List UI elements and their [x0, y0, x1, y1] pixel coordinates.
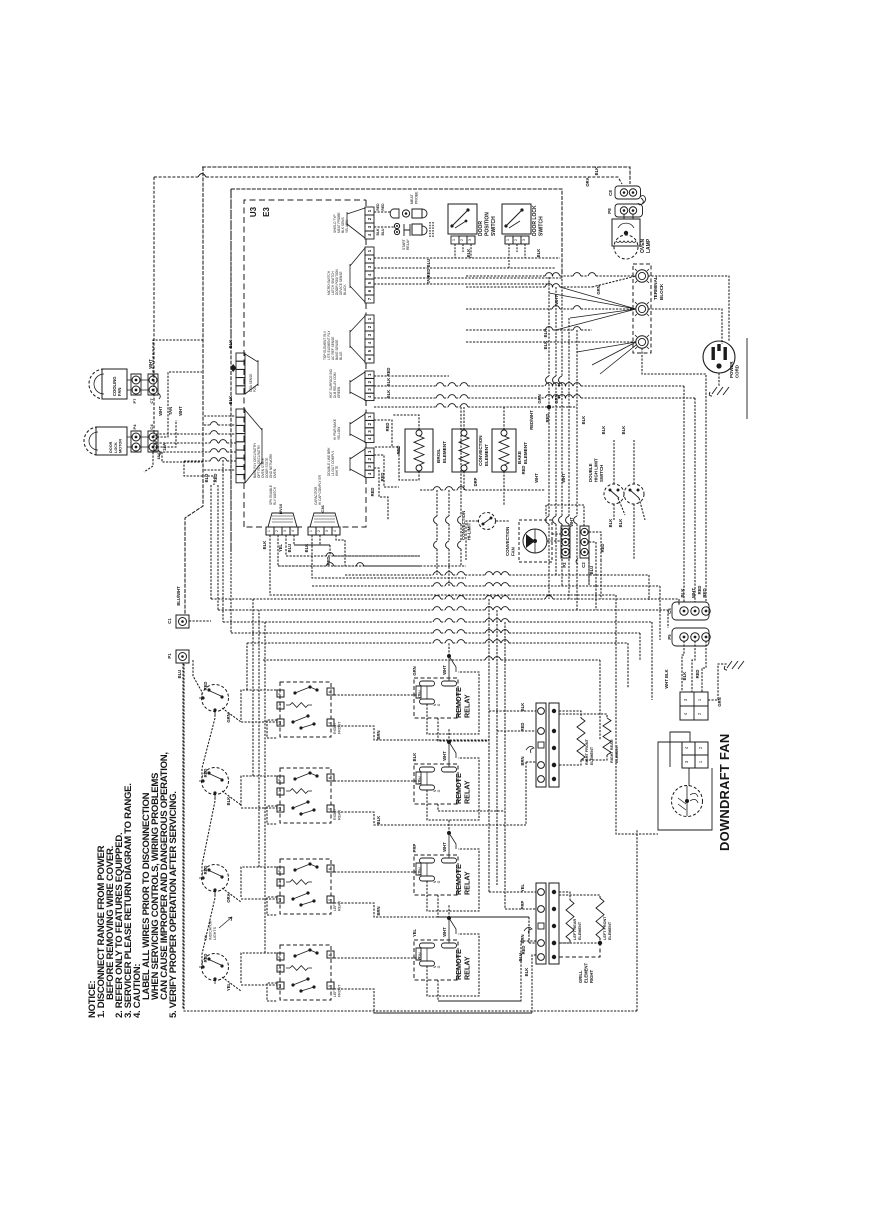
wire relay coil feeds [448, 833, 450, 858]
wire P5 to block [682, 641, 684, 692]
wire hls1 top [613, 440, 615, 484]
power distribution block [680, 692, 708, 720]
svg-text:LAMP: LAMP [646, 238, 652, 253]
wire hls2 top [633, 440, 635, 484]
connector P14 strip [365, 207, 374, 215]
connector C5 [672, 602, 709, 620]
wire strip feeds lower [489, 891, 536, 893]
svg-text:FRONT: FRONT [337, 984, 341, 997]
svg-text:C2: C2 [581, 562, 586, 568]
svg-text:SWITCH: SWITCH [599, 465, 604, 482]
wire left vertical inner [230, 189, 232, 552]
svg-text:L1: L1 [278, 881, 282, 885]
svg-text:WHT: WHT [178, 406, 183, 416]
right front element [559, 711, 581, 718]
connector P4 [131, 431, 141, 452]
svg-text:CORD: CORD [735, 365, 740, 378]
bus wire y660 partial [263, 659, 485, 661]
svg-text:GRN: GRN [596, 285, 601, 294]
svg-text:COM: COM [418, 776, 422, 784]
svg-text:ELEMENT: ELEMENT [584, 963, 589, 983]
svg-text:YEL: YEL [520, 883, 525, 892]
C8 tail [638, 198, 643, 205]
svg-text:P2: P2 [562, 562, 567, 568]
svg-text:WHT BLK: WHT BLK [664, 669, 669, 688]
svg-text:ELEMENT: ELEMENT [442, 441, 447, 463]
vertical drop x461 [460, 407, 462, 516]
svg-text:BLK: BLK [680, 588, 685, 598]
wire BLK green3 [374, 397, 436, 399]
wire sb4 right pins [334, 957, 420, 959]
svg-text:L2: L2 [278, 984, 282, 988]
svg-text:U3: U3 [249, 206, 258, 217]
svg-text:REAR: REAR [337, 901, 341, 911]
wire terminal2 right [648, 309, 722, 344]
wire junction row [374, 406, 436, 408]
wire lamp row2 [374, 226, 395, 228]
switch block left front [280, 945, 331, 1000]
broil element [405, 429, 433, 472]
door lock switch [502, 204, 531, 234]
connector WHT strip [365, 448, 374, 455]
relay junction dot [447, 654, 451, 658]
switch block right front [280, 682, 331, 737]
GREEN fan [350, 372, 365, 400]
svg-text:CONVECTION: CONVECTION [505, 527, 510, 556]
bus wire y633 [231, 632, 433, 634]
junction diamond [230, 364, 236, 372]
svg-text:RED: RED [381, 203, 385, 211]
wire feed P1 to S1 [193, 660, 202, 698]
connector YEL strip [365, 413, 374, 420]
connector C2 [580, 526, 589, 558]
surface unit switch right front [202, 685, 229, 712]
svg-text:WHT: WHT [148, 359, 153, 369]
svg-text:ELEMENT: ELEMENT [608, 921, 612, 940]
svg-text:FAN: FAN [511, 547, 516, 556]
vertical drop x529 lower [528, 917, 530, 943]
svg-text:ORA: ORA [226, 893, 231, 902]
connector C36 pins [308, 527, 316, 535]
wire fan to P2 [547, 534, 561, 541]
svg-text:BRN: BRN [520, 934, 525, 943]
main harness fan [245, 410, 262, 483]
svg-text:RED: RED [213, 474, 218, 483]
bus wire y566 [278, 565, 326, 567]
svg-text:BROIL: BROIL [436, 449, 441, 463]
svg-text:18A: 18A [156, 452, 161, 459]
wire relay coil feeds [448, 742, 450, 767]
svg-text:BLK: BLK [466, 249, 471, 258]
svg-text:BLK: BLK [543, 341, 548, 350]
svg-text:BLK: BLK [601, 426, 606, 435]
wire RED wht2 [374, 468, 388, 520]
fan diagonal t2a [549, 287, 636, 330]
terminal lug 1 [636, 270, 648, 282]
wire left drop x156 [155, 434, 157, 452]
svg-text:OVEN: OVEN [273, 468, 277, 478]
connector C36 trapezoid [310, 513, 339, 527]
svg-text:WHT: WHT [534, 473, 539, 483]
svg-text:RELAY: RELAY [463, 956, 472, 980]
probe bracket [404, 224, 410, 236]
wire sb2 right pins [334, 780, 420, 782]
wire sb3 right pins [334, 871, 420, 873]
svg-text:RIGHT: RIGHT [589, 970, 594, 983]
svg-text:YELLOW: YELLOW [345, 220, 349, 233]
svg-text:ELEMENT: ELEMENT [590, 746, 594, 765]
wire inner frame top [231, 189, 562, 272]
wire convection top [463, 407, 465, 430]
BLACK fan [350, 248, 365, 302]
svg-text:P8: P8 [607, 208, 612, 214]
vertical right bundle x577 [576, 330, 578, 516]
vertical right bundle x562 [561, 272, 563, 376]
vertical drop x505 lower [504, 811, 506, 909]
svg-text:BRN: BRN [376, 730, 381, 739]
wire block to ground GRN [708, 664, 727, 700]
C4 tail [158, 450, 160, 456]
svg-text:RIGHT REAR: RIGHT REAR [610, 739, 614, 763]
svg-text:YEL: YEL [412, 928, 417, 937]
probe pin column [430, 222, 433, 238]
connector C1 bulkhead [176, 615, 189, 628]
svg-text:MV10: MV10 [278, 503, 283, 514]
svg-text:BLK: BLK [543, 329, 548, 338]
svg-text:CONVECTION: CONVECTION [461, 511, 466, 540]
svg-text:C8: C8 [608, 190, 613, 196]
connector C7 [148, 374, 158, 395]
probe plug 1 [412, 209, 422, 218]
svg-text:P7: P7 [132, 398, 137, 404]
wire bottom links relays [438, 718, 489, 741]
surface unit switch right rear [202, 768, 229, 795]
svg-text:BLU: BLU [204, 474, 209, 483]
svg-text:DRP: DRP [473, 477, 478, 486]
wire door pos pins down [455, 244, 471, 258]
wire s1 bottom to box [222, 708, 241, 722]
svg-text:5. VERIFY PROPER OPERATION AF: 5. VERIFY PROPER OPERATION AFTER SERVICI… [168, 791, 179, 1018]
svg-text:OVEN: OVEN [640, 238, 646, 253]
wire BLK green2 [374, 385, 436, 387]
svg-text:DOOR: DOOR [109, 441, 113, 453]
connector BLUE strip [365, 315, 374, 323]
svg-text:BLK: BLK [386, 390, 391, 399]
power cord bracket line [746, 338, 748, 419]
switch block right rear [280, 768, 331, 823]
wire hls2 down [634, 498, 645, 560]
svg-text:L1: L1 [278, 790, 282, 794]
svg-text:YEL: YEL [278, 543, 283, 552]
svg-text:4: 4 [291, 530, 295, 532]
vertical drop x489 [488, 599, 490, 892]
svg-text:BLK: BLK [594, 167, 599, 176]
P23 fan right [245, 354, 258, 394]
bus wire y586 [312, 585, 433, 587]
svg-text:WHT: WHT [442, 665, 447, 675]
wire sb left pin links [241, 690, 277, 738]
wire group into strip [204, 415, 236, 417]
vertical drop x437 [436, 490, 438, 516]
svg-text:RELAY: RELAY [463, 871, 472, 895]
svg-text:C7: C7 [149, 398, 154, 404]
svg-text:MOTOR: MOTOR [119, 439, 123, 453]
svg-text:BLK: BLK [386, 378, 391, 387]
high limit switch 1 [604, 484, 624, 504]
svg-text:P4: P4 [132, 424, 137, 430]
svg-text:ORA: ORA [585, 177, 590, 186]
svg-text:RED: RED [370, 488, 375, 497]
relay junction dot [447, 740, 451, 744]
terminal lug 3 [636, 336, 648, 348]
wire RED green1 [374, 375, 449, 377]
wire jump hook [198, 174, 206, 178]
svg-text:GREEN: GREEN [337, 386, 341, 398]
svg-text:BLK: BLK [262, 541, 267, 550]
svg-text:BRN: BRN [520, 756, 525, 765]
vertical right bundle x549 [548, 277, 550, 376]
svg-text:RED: RED [385, 423, 390, 432]
wire lamp row1 [374, 211, 390, 213]
svg-text:RED: RED [521, 466, 526, 475]
downdraft fan outer box [658, 766, 712, 830]
oven light bulb 2 [394, 223, 399, 228]
terminal lug 2 [636, 303, 648, 315]
remote relay at 414,940 [414, 940, 458, 980]
wire lower strip bottom staircase A [438, 941, 536, 1001]
svg-text:WHT: WHT [442, 842, 447, 852]
wire BLU [374, 267, 556, 269]
bake element [492, 429, 516, 472]
svg-text:DOOR LOCK: DOOR LOCK [532, 205, 538, 236]
wire power cord ground [718, 373, 720, 386]
wire relay outer box [426, 686, 428, 699]
remote relay at 414,764 [414, 764, 458, 804]
harness strip P23 [236, 353, 245, 361]
wire C5-P5 links [684, 615, 706, 633]
door position switch pins [451, 236, 459, 244]
C7 tail [158, 393, 160, 399]
svg-text:WHT: WHT [554, 295, 559, 305]
svg-text:P23: P23 [253, 386, 257, 392]
wire s2 chain to s3 [202, 794, 215, 878]
wire bus 287 [466, 286, 545, 288]
wire C2 down drops [589, 558, 601, 610]
wire RED [374, 277, 562, 279]
wire hi-limit right [496, 520, 510, 522]
bus wire y575 [345, 574, 433, 576]
wire C4 runs [157, 372, 202, 437]
connector C4 [148, 431, 158, 452]
ground squiggle strip1 [526, 746, 534, 753]
svg-text:18A: 18A [162, 443, 167, 451]
wire bake bottom [503, 471, 505, 505]
svg-text:ELEMENT: ELEMENT [523, 442, 528, 464]
svg-text:WHT: WHT [442, 927, 447, 937]
wire relay outer box [426, 948, 428, 961]
wire s2 bottom [222, 791, 241, 805]
svg-text:BLU: BLU [426, 259, 431, 268]
wire hi-limit left [466, 521, 478, 560]
svg-text:YELLOW: YELLOW [337, 427, 341, 440]
svg-text:BLU: BLU [589, 566, 594, 575]
wire x184 drop [184, 461, 214, 485]
svg-text:BLK: BLK [608, 519, 613, 528]
svg-text:LIGHTS: LIGHTS [213, 926, 217, 940]
bus wire y599 [211, 598, 433, 600]
svg-text:WHT: WHT [569, 517, 574, 527]
convection element [452, 429, 477, 472]
svg-text:TAN: TAN [168, 407, 173, 415]
BLUE fan [350, 316, 365, 362]
oven lamp housing [612, 219, 640, 246]
svg-text:HIGH LIMIT: HIGH LIMIT [594, 458, 599, 482]
svg-text:RIGHT: RIGHT [333, 722, 337, 734]
svg-text:RED: RED [376, 203, 380, 211]
svg-text:COM: COM [418, 952, 422, 960]
wire grill dashed [559, 943, 600, 957]
svg-text:BLK: BLK [520, 703, 525, 712]
WHT fan [350, 449, 365, 477]
svg-text:ELEMENT: ELEMENT [578, 921, 582, 940]
wire RED down [217, 485, 219, 610]
svg-text:GRN: GRN [537, 394, 542, 403]
svg-text:3: 3 [283, 530, 287, 532]
svg-text:WHT: WHT [158, 406, 163, 416]
svg-text:C4: C4 [149, 424, 154, 430]
wire switch common verticals [246, 643, 248, 690]
right rear element [559, 714, 607, 718]
svg-text:DOUBLE: DOUBLE [588, 463, 593, 482]
svg-text:RED: RED [386, 368, 391, 377]
svg-text:GRN: GRN [412, 666, 417, 675]
wire RED yel [374, 420, 392, 447]
vertical right bundle x556 [555, 287, 557, 376]
wire lower strip bottom staircase B [374, 955, 536, 1013]
wire WHT fan return [546, 505, 584, 526]
wire N to terminal2 [466, 308, 552, 310]
svg-text:RED: RED [600, 544, 605, 553]
svg-text:BLK: BLK [226, 797, 231, 806]
svg-text:L2: L2 [278, 807, 282, 811]
svg-text:GRILL: GRILL [578, 970, 583, 983]
svg-text:L1: L1 [278, 967, 282, 971]
convection fan box [519, 520, 552, 562]
YEL fan [350, 414, 365, 442]
connector P12 pins [266, 527, 274, 535]
door lock motor [96, 427, 127, 455]
svg-text:BLK: BLK [304, 544, 309, 553]
wire convection bottom [463, 471, 465, 490]
svg-text:SWITCH: SWITCH [491, 216, 497, 236]
svg-text:RED: RED [702, 588, 707, 597]
svg-text:RED: RED [380, 473, 385, 482]
wire P1 down to frame [182, 663, 184, 1009]
wire sb1 right pins [334, 694, 420, 696]
svg-text:BLACK: BLACK [343, 284, 347, 295]
svg-text:POSITION: POSITION [484, 212, 490, 236]
wire x223 down [222, 460, 224, 622]
convection fan motor [523, 529, 547, 553]
svg-text:PRP: PRP [412, 843, 417, 852]
connector P2 [561, 526, 570, 558]
svg-text:BLU: BLU [287, 544, 292, 553]
convection hi-limit [479, 513, 496, 530]
terminal block outline [633, 264, 651, 353]
EOC control board dashed outline [244, 200, 366, 527]
wire downdraft loop [670, 732, 690, 767]
svg-text:YEL: YEL [226, 982, 231, 991]
connector BLACK strip [365, 247, 374, 255]
high limit switch 2 [624, 484, 644, 504]
relay junction dot [447, 916, 451, 920]
svg-text:TAN: TAN [426, 276, 431, 284]
element strip upper right bar [549, 703, 559, 787]
svg-text:GRN: GRN [554, 394, 559, 403]
svg-text:DOOR: DOOR [478, 221, 484, 236]
svg-text:BLK: BLK [376, 816, 381, 825]
relay junction dot [447, 831, 451, 835]
ground symbol power cord [709, 387, 729, 396]
svg-text:RED/WHT: RED/WHT [529, 410, 534, 430]
connector C8 [615, 186, 641, 199]
wire C7 up [153, 340, 203, 376]
remote relay at 414,855 [414, 855, 458, 895]
svg-text:RED: RED [695, 670, 700, 679]
svg-text:BLK: BLK [621, 426, 626, 435]
surface unit switch left rear [202, 865, 229, 892]
svg-text:PROBE: PROBE [415, 191, 419, 204]
svg-text:L2: L2 [278, 721, 282, 725]
connector P8 [615, 204, 643, 217]
svg-text:1: 1 [267, 530, 271, 532]
oven light socket [390, 209, 399, 218]
vertical right bundle x569 [568, 318, 570, 516]
junction RED/WHT [547, 405, 551, 409]
svg-text:RED: RED [545, 414, 550, 423]
svg-text:RLY WATCH: RLY WATCH [273, 486, 277, 505]
svg-text:RIGHT FRONT: RIGHT FRONT [585, 738, 589, 765]
wire BLK to door switches [374, 257, 560, 259]
fan diagonal t3a [577, 342, 636, 374]
wire broil bottom [374, 447, 419, 480]
svg-text:BLK: BLK [682, 672, 687, 681]
surface unit switch left front [202, 954, 229, 981]
connector P14 fan [347, 208, 365, 238]
left rear element [559, 892, 570, 900]
svg-text:BLK: BLK [524, 968, 529, 977]
connector P12 trapezoid [268, 513, 297, 527]
wire left dashed vertical x154 [153, 177, 155, 452]
left front element [559, 895, 600, 898]
vertical drop x497 [496, 610, 498, 885]
wire cooling fan links [127, 380, 148, 390]
wire C1 to bus [189, 620, 211, 622]
svg-text:BAKE: BAKE [517, 451, 522, 464]
svg-text:1: 1 [309, 530, 313, 532]
wire relay outer box [426, 772, 428, 785]
C2 tail [576, 558, 578, 564]
frame bottom line [184, 664, 637, 1011]
wire L1 to terminal1 [466, 275, 545, 277]
harness strip main [236, 409, 245, 417]
probe plug 2 [412, 224, 422, 235]
element strip lower right bar [549, 883, 559, 964]
svg-text:BRN: BRN [376, 906, 381, 915]
svg-text:TERMINAL: TERMINAL [653, 276, 658, 300]
svg-text:GRN: GRN [717, 697, 722, 706]
connector GREEN strip [365, 371, 374, 378]
